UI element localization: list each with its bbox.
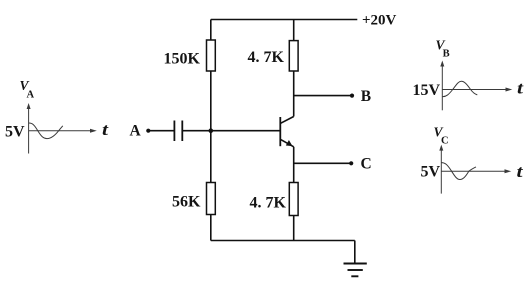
VA horizontal axis arrowhead xyxy=(90,129,97,133)
ground xyxy=(344,241,367,277)
ground bar 3 xyxy=(351,275,358,277)
VB vertical axis arrowhead xyxy=(440,61,444,67)
svg-text:C: C xyxy=(441,136,449,147)
junction dot (base/divider) xyxy=(209,128,214,133)
svg-text:A: A xyxy=(27,90,35,101)
wire: R1 to base junction xyxy=(210,71,212,131)
wire: +20V top rail xyxy=(211,19,357,21)
ground bar 2 xyxy=(348,269,363,271)
circuit wires and parts xyxy=(149,20,357,241)
svg-text:C: C xyxy=(361,156,372,173)
wire: node A lead xyxy=(149,130,174,132)
wire: node B lead xyxy=(294,95,352,97)
wire: R4 to bottom rail xyxy=(293,216,295,241)
VA vertical axis xyxy=(28,107,30,154)
node A dot xyxy=(146,129,150,133)
wire: R2 to collector (B tap) xyxy=(293,71,295,117)
wire: R3 to bottom rail xyxy=(210,215,212,241)
VC horizontal axis (t) xyxy=(441,170,505,172)
svg-text:B: B xyxy=(361,88,371,105)
VA horizontal axis (t) xyxy=(29,130,91,132)
svg-text:5V: 5V xyxy=(5,123,25,140)
VA vertical axis arrowhead xyxy=(27,103,31,109)
svg-text:B: B xyxy=(443,49,450,60)
VB sine curve xyxy=(442,81,477,96)
svg-text:t: t xyxy=(517,80,524,98)
resistor R2 4.7K (collector) xyxy=(289,41,298,71)
wire: top rail to R1 xyxy=(210,20,212,41)
waveform VB group xyxy=(442,65,506,111)
Q1 collector diagonal xyxy=(280,117,293,124)
svg-text:4. 7K: 4. 7K xyxy=(248,49,285,66)
wire: capacitor to base junction to transistor base xyxy=(182,130,280,132)
waveform VA group xyxy=(29,107,91,154)
node B dot xyxy=(350,94,354,98)
Q1 emitter arrowhead xyxy=(286,140,293,146)
svg-text:56K: 56K xyxy=(172,194,201,211)
ground stem xyxy=(354,241,356,264)
Q1 base bar xyxy=(279,117,281,146)
VB vertical axis xyxy=(441,65,443,111)
wire: bottom rail xyxy=(211,240,355,242)
svg-text:4. 7K: 4. 7K xyxy=(250,195,287,212)
svg-text:t: t xyxy=(102,121,109,139)
capacitor C1 right plate xyxy=(181,121,183,142)
VC vertical axis xyxy=(440,149,442,194)
VC vertical axis arrowhead xyxy=(439,145,443,151)
wire: top rail to R2 xyxy=(293,20,295,41)
VC horizontal axis arrowhead xyxy=(505,169,512,173)
waveform VC group xyxy=(441,149,505,194)
resistor R1 150K xyxy=(207,40,216,71)
svg-text:150K: 150K xyxy=(164,51,201,68)
wire: emitter vertical (C tap) xyxy=(293,147,295,183)
wire: node C lead xyxy=(294,162,352,164)
ground bar 1 xyxy=(344,263,367,265)
svg-text:15V: 15V xyxy=(412,82,440,99)
node C dot xyxy=(349,161,353,165)
resistor R3 56K xyxy=(207,183,216,215)
svg-text:5V: 5V xyxy=(420,164,440,181)
svg-text:+20V: +20V xyxy=(362,13,397,29)
VB horizontal axis arrowhead xyxy=(506,88,513,92)
VA sine curve xyxy=(29,123,63,139)
wire: base junction to R3 xyxy=(210,131,212,183)
resistor R4 4.7K (emitter) xyxy=(289,183,298,216)
Q1 emitter diagonal xyxy=(280,139,293,147)
transistor Q1 xyxy=(280,117,293,147)
VB horizontal axis (t) xyxy=(442,89,506,91)
svg-text:t: t xyxy=(517,163,524,181)
svg-text:A: A xyxy=(130,123,142,140)
capacitor C1 left plate xyxy=(173,121,175,142)
VC sine curve xyxy=(441,163,476,180)
